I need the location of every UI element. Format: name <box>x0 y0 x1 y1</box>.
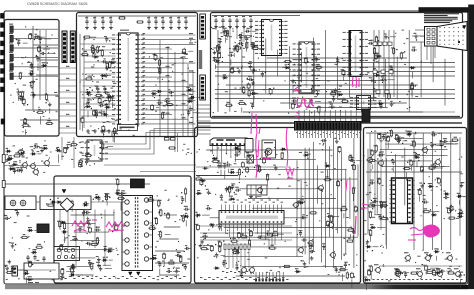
wire Emeshh11 <box>223 256 303 258</box>
diode Dmid17 <box>69 274 71 276</box>
diode lstrip1 <box>5 150 7 152</box>
capacitor Clow10 <box>231 69 234 73</box>
wire Dmesh2h4 <box>155 262 189 264</box>
capacitor Cmid11 <box>291 104 294 108</box>
wire Cmeshvv15 <box>396 57 398 100</box>
diode Dmid26 <box>60 221 62 223</box>
diode Brt14 <box>186 89 188 91</box>
capacitor Elow6 <box>218 242 221 246</box>
transistor QE6 <box>258 188 263 193</box>
capacitor Ert2 <box>335 267 337 269</box>
wire strip bus2 <box>102 129 196 155</box>
wire Cmeshvv6 <box>289 46 291 109</box>
diode lstrip6 <box>8 168 10 170</box>
capacitor Ert34 <box>349 156 352 160</box>
capacitor Ftop21 <box>395 136 398 140</box>
wire Dmesh2h3 <box>155 250 184 252</box>
ground gC6 <box>250 25 252 27</box>
wire Fmeshh6 <box>381 165 450 167</box>
diode Crt16 <box>409 67 411 69</box>
annotation pink right <box>346 180 350 191</box>
capacitor Emid26 <box>246 168 249 172</box>
wire ic01 pin1 <box>142 34 196 36</box>
crt picture tube <box>425 27 438 47</box>
wire crt neck2 <box>412 35 425 37</box>
transistor QR3 <box>448 256 453 261</box>
annotation pink lines1 <box>251 113 260 134</box>
capacitor Emid8 <box>241 163 244 167</box>
capacitor tunA4 <box>29 66 31 68</box>
wire Fmeshh0 <box>366 132 462 134</box>
labels and nodes strip <box>94 163 95 164</box>
resistor Bleft33 <box>96 47 98 52</box>
capacitor Eleft24 <box>203 167 205 169</box>
capacitor Dmid14 <box>89 260 91 262</box>
block top-right frame <box>211 13 463 119</box>
diode acbox4 <box>83 204 85 206</box>
diode Clow3 <box>251 93 253 95</box>
diode Brt2 <box>156 90 158 92</box>
wire cc5 <box>243 24 245 42</box>
connector pad P4 <box>1 41 5 46</box>
resistor Cleft19 <box>235 47 240 49</box>
wire Evertv11 <box>341 152 343 260</box>
wire Bl5 <box>84 67 115 69</box>
capacitor Cleft24 <box>246 36 248 38</box>
label tr3 <box>9 42 13 43</box>
resistor Emid15 <box>258 166 260 171</box>
capacitor Ert6 <box>327 216 329 218</box>
wire strip drop1 <box>73 137 75 168</box>
wire channelAB3 <box>59 85 77 87</box>
ground gB5 <box>148 26 150 28</box>
capacitor Drt2 <box>175 254 177 256</box>
ic IC201 jungle <box>210 138 250 146</box>
diode strip3 <box>55 149 57 151</box>
capacitor Ert19 <box>344 262 346 264</box>
capacitor Ftop6 <box>420 167 423 171</box>
ground Cleft14 <box>218 46 220 48</box>
wire E long2 <box>200 239 292 241</box>
wire Cmeshh6 <box>226 84 418 86</box>
diode Bleft27 <box>106 96 108 98</box>
capacitor Dlow-left3 <box>17 210 19 212</box>
wire Dmeshh2 <box>74 231 109 233</box>
wire channelAB0 <box>59 67 77 69</box>
capacitor Fmid212 <box>418 190 421 194</box>
label box Cb5 <box>381 70 385 73</box>
resistor Ftop12 <box>452 139 457 141</box>
resistor Bleft18 <box>106 63 108 68</box>
capacitor Dmid23 <box>86 242 88 244</box>
wire Cmeshvv7 <box>301 52 303 82</box>
wire cb3 <box>102 16 104 19</box>
ground Fbot13 <box>430 253 432 255</box>
resistor Brt5 <box>162 113 164 118</box>
diode Fbot1 <box>434 251 436 253</box>
wire crt drop3 <box>434 46 436 58</box>
wire ic01 pin2 <box>142 39 196 41</box>
ic IC202 drive <box>219 211 284 225</box>
capacitor Elow17 <box>266 233 268 235</box>
label box Cb0 <box>373 42 377 45</box>
diode lstrip13 <box>42 147 44 149</box>
wire ic01 pin11 <box>142 81 188 83</box>
wire tuner out1 <box>33 44 58 46</box>
ground Emid13 <box>275 166 277 168</box>
diode tunA14 <box>28 73 30 75</box>
note text block <box>424 12 449 13</box>
capacitor Dmid10 <box>83 210 85 212</box>
capacitor Dtop1 <box>119 193 121 195</box>
wire cc1 <box>215 24 217 30</box>
wire Bl0 <box>84 37 116 39</box>
label under box <box>28 282 33 283</box>
ground gB8 <box>170 26 172 28</box>
wire bus inside top-right block <box>212 116 460 118</box>
capacitor Cmid16 <box>329 106 331 108</box>
label QR6 <box>436 268 441 269</box>
diode lstrip9 <box>30 153 32 155</box>
connector pad left2 <box>2 181 5 188</box>
ground strip2 <box>66 146 68 148</box>
capacitor Cmid18 <box>304 59 307 63</box>
diode Fmid210 <box>457 195 459 197</box>
wire tr3 <box>13 47 58 49</box>
resistor TR1 <box>10 26 13 32</box>
label box Cb1 <box>378 42 382 45</box>
capacitor Elow24 <box>210 247 213 251</box>
wire Emeshh7 <box>210 217 308 219</box>
wire Cmeshvv1 <box>229 36 231 111</box>
wire cb10 <box>185 16 187 19</box>
annotation pink blob <box>424 225 440 237</box>
ferrite bead FB2 <box>171 138 176 141</box>
transistor QR2 <box>426 256 431 261</box>
capacitor tunA9 <box>24 119 27 123</box>
block power frame <box>54 176 191 283</box>
wire strip v pair <box>174 133 176 152</box>
label QR2 <box>424 252 429 253</box>
resistor Bleft10 <box>95 111 97 116</box>
capacitor Cmid7 <box>315 56 317 58</box>
resistor Ert35 <box>311 212 316 214</box>
capacitor Dmid21 <box>102 248 104 250</box>
label QR5 <box>416 268 421 269</box>
capacitor acbox6 <box>83 202 85 204</box>
connector pad P2 <box>1 23 5 28</box>
resistor Fmid12 <box>369 205 374 207</box>
capacitor CD51 <box>27 255 29 257</box>
capacitor Emid5 <box>224 163 226 165</box>
wire Fmeshh5 <box>375 160 433 162</box>
capacitor Bleft17 <box>111 95 113 97</box>
capacitor CB8 <box>170 19 172 21</box>
wire crt drop2 <box>430 46 432 64</box>
resistor TR2 <box>10 35 13 41</box>
wire channelAB10 <box>59 127 77 129</box>
resistor Crt9 <box>411 84 413 89</box>
labels and nodes Ert <box>321 172 324 173</box>
capacitor CD53 <box>43 256 45 258</box>
ic IC03 sync <box>299 42 314 93</box>
resistor Crt22 <box>373 49 375 54</box>
connector pad P3 <box>1 32 5 37</box>
wire Cmeshh0 <box>267 57 407 59</box>
capacitor CB5 <box>148 19 150 21</box>
relay box <box>245 139 253 153</box>
ground gBb1 <box>94 129 96 131</box>
wire Cmeshvv8 <box>313 38 315 85</box>
diode Bleft28 <box>105 106 107 108</box>
wire cc2 <box>222 24 224 33</box>
diode Bleft6 <box>93 56 95 58</box>
capacitor Eleft29 <box>235 189 237 191</box>
wire Fmeshvv9 <box>450 133 452 250</box>
capacitor Fmid216 <box>447 209 450 213</box>
ground gB7 <box>162 26 164 28</box>
wire ic01 pin10 <box>142 76 172 78</box>
wire channelAB1 <box>59 73 77 75</box>
capacitor Ert32 <box>301 239 303 241</box>
wire ic01 pin16 <box>142 104 188 106</box>
capacitor Dmid22 <box>79 227 81 229</box>
wire Bl9 <box>80 91 115 93</box>
capacitor Cleft16 <box>238 35 240 37</box>
capacitor Cleft22 <box>251 43 253 45</box>
capacitor CB4 <box>110 19 112 21</box>
transistor QL4 <box>45 161 50 166</box>
capacitor Cleft23 <box>224 31 227 35</box>
wire Evertv14 <box>353 138 355 268</box>
capacitor Dmid29 <box>72 238 74 240</box>
capacitor Fmid9 <box>378 179 381 183</box>
degauss plug1 <box>10 200 16 206</box>
ground Clow7 <box>238 69 240 71</box>
capacitor Elow10 <box>202 235 204 237</box>
box line filter <box>40 196 91 210</box>
box BS row <box>247 185 267 195</box>
wire Cmeshvv9 <box>325 30 327 112</box>
resistor Ftop18 <box>375 146 377 151</box>
ground gB2 <box>94 26 96 28</box>
diode Elow27 <box>209 224 211 226</box>
wire Fmeshvv3 <box>395 154 397 217</box>
resistor Cleft21 <box>246 43 248 48</box>
ground tunA26 <box>49 102 51 104</box>
ground gBb2 <box>101 129 103 131</box>
ground Cleft5 <box>214 51 216 53</box>
wire strip h1 <box>104 164 196 166</box>
resistor Emid19 <box>196 178 201 180</box>
ground Cmid1 <box>292 79 294 81</box>
wire Evertv1 <box>300 179 302 228</box>
wire channelAB5 <box>59 97 77 99</box>
ground Dmid30 <box>98 257 100 259</box>
wire Cmeshvv4 <box>265 38 267 93</box>
wire Bvert3 <box>182 58 184 136</box>
ground Fmid211 <box>421 184 423 186</box>
diode Bleft30 <box>85 91 87 93</box>
capacitor CC1 <box>215 18 217 20</box>
capacitor Ert27 <box>300 217 302 219</box>
capacitor Dlow-left1 <box>12 266 14 268</box>
capacitor Ftop26 <box>431 134 433 136</box>
capacitor Drt3 <box>163 254 166 258</box>
capacitor Emid9 <box>226 164 228 166</box>
ic IC02 video <box>262 20 282 56</box>
degauss plug2 <box>20 200 26 206</box>
wire ic01 pin12 <box>142 86 196 88</box>
capacitor Ftop15 <box>392 159 394 161</box>
dark connector on divider <box>362 109 370 122</box>
capacitor Brt10 <box>154 55 157 59</box>
diode lstrip12 <box>7 158 9 160</box>
capacitor Fmid4 <box>372 200 374 202</box>
ground gBb3 <box>108 129 110 131</box>
resistor Cleft17 <box>236 46 238 51</box>
capacitor Cmid15 <box>310 98 312 100</box>
capacitor Ftop8 <box>432 166 434 168</box>
wire tuner out2 <box>40 59 58 61</box>
capacitor Cmid2 <box>337 58 339 60</box>
capacitor strip7 <box>86 159 88 161</box>
diode Crt5 <box>376 55 378 57</box>
capacitor CD52 <box>34 255 36 257</box>
wire D drop3 <box>83 210 85 231</box>
wire Cbus0 <box>373 30 375 97</box>
component box X <box>247 155 254 163</box>
resistor RB1 <box>120 17 125 19</box>
ground gB4 <box>110 26 112 28</box>
wire tr6 <box>13 75 58 77</box>
labels and nodes Bbot <box>108 130 110 131</box>
capacitor Ert3 <box>337 182 340 186</box>
capacitor Cmid14 <box>335 88 337 90</box>
capacitor strip1 <box>79 160 82 164</box>
wire ic01 pin3 <box>142 43 196 45</box>
resistor Elow16 <box>270 247 275 249</box>
connector CN402 <box>200 75 206 100</box>
capacitor Bleft26 <box>87 99 89 101</box>
ground Emid17 <box>208 190 210 192</box>
capacitor Crt17 <box>380 103 382 105</box>
wire B left bus2 <box>83 36 85 128</box>
wire F left drop1 <box>374 133 376 215</box>
capacitor Ftop11 <box>377 154 379 156</box>
resistor Dtop8 <box>105 195 107 200</box>
capacitor strip6 <box>79 163 82 167</box>
diode Clow15 <box>222 77 224 79</box>
wire channelAB11 <box>59 132 77 134</box>
capacitor Drt8 <box>184 248 186 250</box>
capacitor Bleft24 <box>104 86 106 88</box>
transistor QR4 <box>396 272 401 277</box>
resistor Drt17 <box>150 227 155 229</box>
wire ic01 pin5 <box>142 53 188 55</box>
wire cc6 <box>250 24 252 45</box>
resistor Bleft14 <box>82 53 87 55</box>
capacitor strip4 <box>64 148 67 152</box>
diode Fmid23 <box>457 215 459 217</box>
labels and nodes strip-r <box>187 152 189 153</box>
wire channelBC6 <box>197 129 211 131</box>
wire Cmeshvv12 <box>360 30 362 112</box>
wire channelBC4 <box>197 120 211 122</box>
capacitor tunA13 <box>18 40 20 42</box>
resistor TR4 <box>10 54 13 60</box>
resistor Elow13 <box>242 236 247 238</box>
resistor Dlow-left6 <box>22 236 27 238</box>
resistor Ert23 <box>348 229 353 231</box>
capacitor Bleft36 <box>102 61 104 63</box>
resistor Emid21 <box>238 170 240 175</box>
label channelAB4 <box>66 90 69 91</box>
resistor Elow7 <box>284 265 289 267</box>
diode Crt1 <box>375 74 377 76</box>
wire ic01 pin4 <box>142 48 172 50</box>
diode Fmid24 <box>458 212 460 214</box>
wire cb4 <box>110 16 112 19</box>
ground Fmid1 <box>366 240 368 242</box>
wire ic01 pin20 <box>142 123 196 125</box>
diode Cmid9 <box>284 67 286 69</box>
capacitor Ftop27 <box>442 141 444 143</box>
capacitor CC4 <box>236 18 238 20</box>
wire Cmeshh2 <box>215 66 455 68</box>
resistor Ftop20 <box>390 131 392 136</box>
capacitor Bleft13 <box>87 94 89 96</box>
resistor Cleft4 <box>253 47 258 49</box>
wire Cmeshh1 <box>215 62 455 64</box>
capacitor Clow14 <box>251 69 253 71</box>
resistor tunA3 <box>19 73 21 78</box>
resistor Dmid12 <box>59 222 61 227</box>
ground gB1 <box>86 26 88 28</box>
wire Fmeshvv4 <box>404 148 406 206</box>
capacitor Brt15 <box>168 92 170 94</box>
resistor RB2 <box>138 21 143 23</box>
capacitor Emid11 <box>263 159 266 163</box>
resistor Fmid7 <box>382 218 387 220</box>
capacitor tunA25 <box>40 53 42 55</box>
wire Cbus4 <box>393 30 395 97</box>
capacitor Clow9 <box>261 71 263 73</box>
resistor Elow2 <box>273 233 278 235</box>
wire E mid bus <box>196 166 290 168</box>
resistor strip5 <box>71 144 76 146</box>
resistor Emid25 <box>257 166 259 171</box>
capacitor Brt1 <box>151 105 154 109</box>
resistor Ert7 <box>340 269 345 271</box>
wire channelBC3 <box>197 116 211 118</box>
diode Fbot12 <box>435 272 437 274</box>
wire ic01 pin19 <box>142 118 188 120</box>
labels and nodes Dlow-left <box>10 217 11 218</box>
diode lstrip14 <box>6 159 8 161</box>
wire Fmeshh3 <box>380 149 448 151</box>
resistor Eleft21 <box>229 187 231 192</box>
diode Dtop5 <box>115 192 117 194</box>
capacitor Ftop4 <box>398 138 400 140</box>
capacitor Dmid27 <box>60 246 63 250</box>
wire Bvert0 <box>159 40 161 136</box>
resistor Emid23 <box>267 175 269 180</box>
resistor Drt11 <box>169 262 174 264</box>
capacitor Fmid2 <box>371 205 373 207</box>
resistor Bleft3 <box>109 62 111 67</box>
labels and nodes Cleft <box>252 45 254 46</box>
